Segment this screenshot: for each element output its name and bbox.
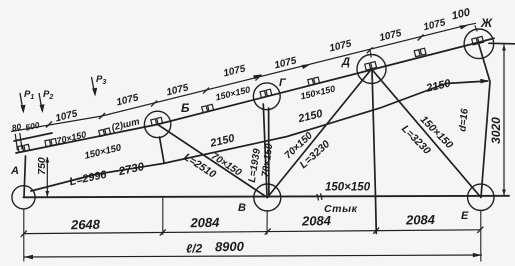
left end post A — [24, 156, 26, 197]
bottom chord — [24, 196, 510, 198]
svg-text:2084: 2084 — [301, 213, 332, 229]
svg-text:2648: 2648 — [70, 217, 101, 233]
sub-chord panel dimension line from A — [31, 81, 488, 191]
arrowhead left end of overall dimension — [24, 255, 33, 259]
svg-text:ℓ/2: ℓ/2 — [186, 241, 203, 255]
node A circle — [12, 186, 35, 209]
bottom dimension line 2 overall span — [24, 255, 482, 257]
svg-text:Ж: Ж — [480, 16, 493, 30]
right end post Ж-Е — [479, 45, 490, 198]
extension line below node Е — [480, 211, 482, 262]
node Ж circle — [464, 29, 494, 59]
diagonal В-Д — [267, 69, 371, 198]
svg-text:Б: Б — [181, 101, 190, 115]
svg-text:Е: Е — [461, 210, 469, 222]
node Д circle — [357, 55, 386, 84]
svg-text:8900: 8900 — [215, 239, 245, 255]
top dimension line — [11, 23, 476, 150]
vertical from node Д down to lower dim line — [372, 70, 376, 234]
extension line below node Б — [162, 197, 164, 235]
svg-text:Д: Д — [341, 56, 350, 68]
load arrow P1 — [20, 93, 26, 114]
svg-text:В: В — [238, 202, 246, 214]
arrowhead tick on top dimension line at x=309 — [302, 64, 311, 69]
wire: horizontal stub from node Ж to right edge — [489, 42, 515, 45]
gusset plate symbols along top chord — [18, 36, 484, 152]
diagonal Б-В — [158, 124, 268, 197]
splice mark on bottom chord — [317, 193, 322, 200]
vertical dimension 750 near A — [45, 157, 49, 198]
wire: extension ticks at 80 mark — [15, 134, 17, 151]
svg-text:750: 750 — [36, 157, 48, 175]
bottom dimension line 1 — [24, 230, 481, 234]
extension line below node В — [266, 211, 268, 235]
extension line below node A — [23, 209, 25, 262]
load arrow P3 — [92, 77, 98, 97]
tick marks on top dimension line — [46, 75, 261, 128]
diagonal Д-Е — [372, 69, 481, 197]
top chord — [16, 38, 494, 153]
wire: extra line at left end of top chord — [14, 133, 52, 141]
svg-text:2084: 2084 — [189, 215, 220, 231]
wire: second vertical line beside Г-В — [268, 108, 270, 196]
tick marks on bottom dimension line 1 — [21, 227, 484, 237]
node В circle — [254, 184, 281, 211]
arrowhead at right end of top dimension line — [459, 25, 468, 30]
arrowhead at right end of sub-chord dimension line — [480, 79, 489, 84]
load arrow P2 — [39, 93, 45, 113]
svg-text:3020: 3020 — [489, 117, 503, 144]
svg-text:150×150: 150×150 — [325, 182, 371, 194]
svg-text:А: А — [10, 165, 19, 177]
node Е circle — [468, 184, 494, 210]
right vertical dimension line 3020 — [502, 45, 506, 196]
svg-text:2084: 2084 — [405, 212, 436, 228]
arrowhead right end of overall dimension — [473, 253, 482, 257]
node Б circle — [144, 111, 170, 137]
vertical strut below node Б — [160, 137, 165, 163]
node Г circle — [253, 83, 280, 110]
vertical member Г-В — [263, 104, 267, 196]
